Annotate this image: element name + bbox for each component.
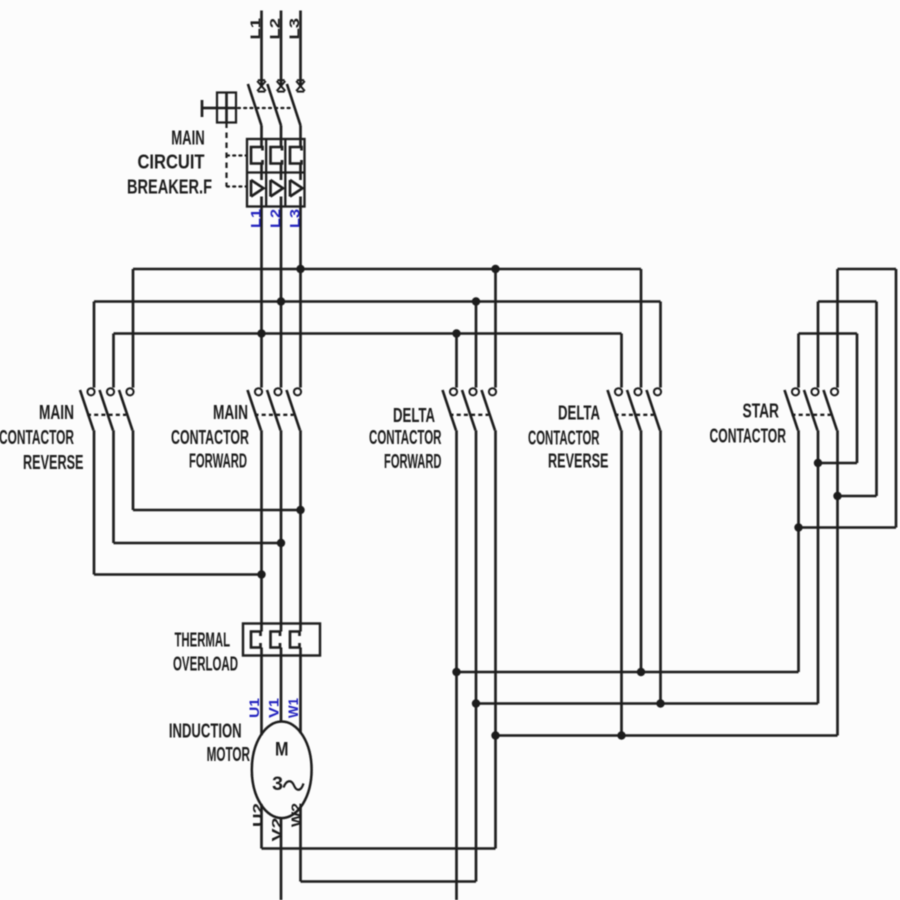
svg-text:MAIN: MAIN — [213, 402, 248, 424]
svg-text:MAIN: MAIN — [39, 402, 74, 424]
svg-text:L3: L3 — [286, 18, 302, 40]
svg-text:U2: U2 — [250, 803, 266, 827]
svg-text:CONTACTOR: CONTACTOR — [171, 427, 249, 449]
svg-text:CONTACTOR: CONTACTOR — [528, 428, 600, 450]
svg-text:BREAKER.F: BREAKER.F — [127, 177, 212, 199]
svg-text:CONTACTOR: CONTACTOR — [369, 427, 442, 449]
svg-text:CIRCUIT: CIRCUIT — [138, 152, 205, 174]
svg-text:FORWARD: FORWARD — [384, 451, 442, 473]
svg-text:DELTA: DELTA — [558, 403, 600, 425]
svg-text:V1: V1 — [267, 697, 282, 718]
svg-text:MAIN: MAIN — [171, 128, 205, 150]
svg-text:DELTA: DELTA — [393, 405, 435, 427]
svg-text:REVERSE: REVERSE — [23, 452, 84, 474]
svg-text:V2: V2 — [269, 817, 285, 841]
svg-text:3: 3 — [272, 773, 283, 795]
svg-text:M: M — [275, 739, 289, 761]
svg-text:OVERLOAD: OVERLOAD — [173, 654, 238, 676]
svg-text:U1: U1 — [247, 697, 262, 718]
svg-text:L1: L1 — [247, 18, 263, 40]
svg-text:STAR: STAR — [743, 401, 780, 423]
svg-text:W1: W1 — [286, 698, 301, 718]
svg-text:CONTACTOR: CONTACTOR — [710, 426, 787, 448]
svg-text:W2: W2 — [288, 803, 304, 827]
svg-text:L2: L2 — [267, 18, 283, 40]
svg-text:THERMAL: THERMAL — [175, 630, 231, 652]
svg-text:MOTOR: MOTOR — [207, 744, 251, 766]
svg-text:INDUCTION: INDUCTION — [169, 720, 242, 742]
svg-text:FORWARD: FORWARD — [189, 451, 247, 473]
svg-text:REVERSE: REVERSE — [548, 451, 609, 473]
svg-text:CONTACTOR: CONTACTOR — [0, 427, 74, 449]
